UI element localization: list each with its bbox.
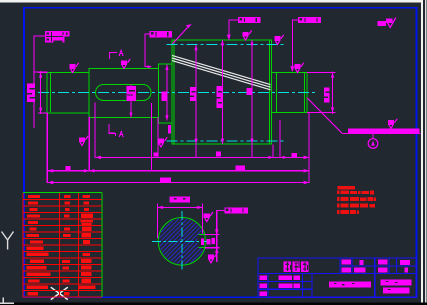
table cell text blobs — [27, 195, 96, 296]
FCF frame U3 (above gear) — [238, 17, 261, 23]
roughness symbol section top — [204, 212, 213, 222]
datum baseline — [342, 133, 420, 134]
datum text bar — [348, 129, 420, 134]
window right edge lines — [421, 0, 423, 303]
school project cell — [329, 281, 371, 287]
class cell two lines — [381, 279, 412, 285]
gear left chamfer line — [173, 41, 175, 144]
extension x157.8 — [157, 117, 158, 157]
window bottom black strip — [0, 302, 427, 305]
keyway width arrows/text — [215, 229, 219, 253]
roughness symbol below journal1 — [79, 136, 88, 146]
datum leader diagonal — [307, 98, 342, 134]
right journal diameter dim — [307, 72, 335, 73]
roughness symbol below shoulder — [158, 137, 167, 147]
right journal chamfer lines — [276, 73, 278, 112]
UCS icon Y axis — [2, 232, 14, 250]
FCF U4 leader — [292, 20, 298, 21]
title name (gear shaft) — [284, 262, 292, 273]
section view hatch (blue 45 deg) — [159, 218, 205, 264]
shaft shoulder collar — [159, 64, 172, 123]
journal 1 diameter dimension — [38, 72, 48, 73]
gear pitch line bottom — [167, 140, 286, 142]
FCF frame U2 (above shoulder) — [150, 31, 173, 37]
table green borders — [23, 193, 102, 298]
gear section outline — [172, 40, 272, 144]
window top bar — [0, 0, 422, 3]
extension x308.8 — [308, 113, 309, 182]
UCS icon corner L — [0, 298, 14, 304]
datum circle pendant — [373, 134, 374, 139]
roughness symbol section bottom — [208, 253, 217, 263]
FCF U2 leader — [144, 33, 149, 34]
gear dim line x252 — [251, 40, 252, 157]
FCF frame U4 (above right journal) — [298, 17, 321, 23]
dimension line D3 (y182.5) — [47, 182, 309, 183]
gear teeth direction lines (white) — [172, 55, 271, 89]
extension x89.2 — [89, 117, 90, 171]
extension x151.3 — [151, 103, 152, 171]
dim arrowheads — [47, 156, 309, 185]
centerline main (cyan) — [38, 45, 316, 271]
technical requirements notes (red) — [337, 186, 376, 214]
section ext lines — [157, 204, 158, 239]
dimension line D1 (y157.3) — [95, 157, 310, 158]
material/scale cells — [342, 260, 352, 265]
extension x95 — [95, 103, 96, 158]
title text blobs (magenta) — [259, 260, 411, 296]
keyway depth dimension line — [131, 85, 132, 118]
roughness symbol on step2 — [121, 59, 130, 69]
roughness symbol on journal1 — [69, 63, 78, 73]
shaft step 2 (keyway section) — [89, 69, 159, 118]
keyway dim text (vertical) — [127, 86, 137, 101]
dimension line D2 (y170.7) — [47, 170, 309, 171]
gear dim line x196 — [196, 45, 197, 157]
shaft right journal — [272, 72, 308, 112]
leader arrow to gear teeth — [172, 28, 187, 45]
roughness symbol on gear pitch — [274, 35, 283, 45]
section view circle — [158, 218, 206, 266]
FCF frame U1 (two-row, top left) — [45, 31, 70, 37]
shaft journal 1 (left bearing seat) — [47, 72, 89, 113]
keyway notch in section view — [198, 235, 205, 248]
FCF U5 leader — [216, 210, 224, 211]
gear parameter table (red) — [23, 193, 102, 297]
section label A bottom — [109, 124, 116, 134]
section view top dimension — [158, 207, 203, 208]
small mark near shoulder bottom — [168, 125, 171, 134]
gear pitch line top — [167, 44, 286, 46]
extension x273 — [273, 144, 274, 157]
roughness symbol on datum bar — [388, 119, 397, 129]
gear right chamfer line — [268, 41, 270, 144]
section label A top — [109, 52, 117, 59]
extension x47.2 — [47, 113, 48, 183]
crosshair cursor — [51, 287, 68, 299]
title block (blue lines) — [258, 258, 417, 297]
FCF U3 leader — [228, 19, 238, 20]
section view centerlines — [152, 240, 211, 242]
roughness symbol on right journal — [294, 63, 303, 73]
FCF U1 leader — [33, 35, 45, 36]
keyway width ext lines — [205, 234, 220, 235]
journal 1 chamfer line — [49, 73, 51, 112]
general roughness note (top right) — [378, 21, 387, 26]
roughness symbol on gear top — [242, 30, 251, 40]
FCF frame U5 (section view) — [224, 208, 248, 214]
shoulder diameter dim — [166, 65, 167, 121]
extension x280 — [280, 120, 281, 157]
keyway slot — [96, 85, 152, 101]
keyway notch cutout mask in section view — [198, 235, 206, 246]
designer rows — [259, 275, 267, 280]
gear dim line x222.5 — [222, 40, 223, 144]
journal 1 dim text (vertical) — [27, 84, 35, 103]
